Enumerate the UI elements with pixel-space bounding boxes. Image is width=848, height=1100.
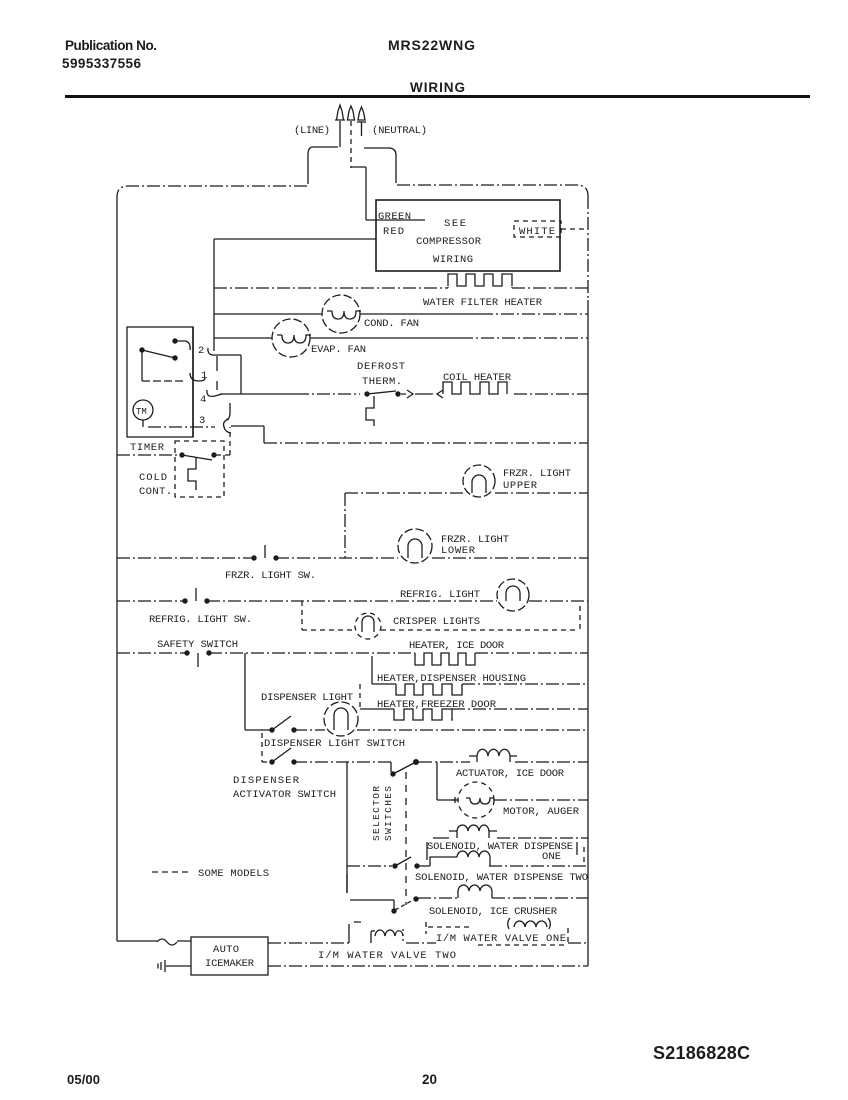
svg-text:SEE: SEE: [444, 218, 466, 230]
cold control dot right: [211, 452, 216, 457]
wire selector sw2 feed: [347, 865, 392, 867]
label SEE COMPRESSOR WIRING: [416, 218, 482, 266]
wire left bus to icemaker: [117, 940, 191, 942]
wire actuator row: [419, 761, 470, 763]
selector switch 1 dot right: [413, 759, 419, 765]
timer box: [127, 327, 193, 437]
label AUTO ICEMAKER: [205, 944, 255, 970]
svg-text:MRS22WNG: MRS22WNG: [388, 37, 475, 53]
label FRZR. LIGHT UPPER: [503, 468, 571, 492]
svg-text:S2186828C: S2186828C: [653, 1043, 750, 1063]
cold control box: [175, 441, 224, 497]
heater water filter element: [214, 287, 448, 289]
wire freezer door row right: [452, 708, 588, 710]
wire refrig light row: [207, 600, 588, 602]
svg-text:DISPENSER LIGHT SWITCH: DISPENSER LIGHT SWITCH: [264, 738, 405, 750]
frzr light switch dot right: [273, 555, 278, 560]
svg-text:DEFROST: DEFROST: [357, 361, 405, 373]
wire junction down to defrost row: [240, 355, 242, 394]
selector switch 2 dot right: [414, 863, 419, 868]
svg-text:MOTOR, AUGER: MOTOR, AUGER: [503, 806, 580, 818]
wire right bus: [587, 196, 589, 300]
timer blade dot left: [139, 347, 144, 352]
wire crisper drop: [301, 601, 303, 630]
heater dispenser housing element: [396, 684, 462, 695]
svg-text:DISPENSER: DISPENSER: [233, 775, 300, 787]
contact 2 jaw: [208, 348, 222, 355]
safety switch dot right: [206, 650, 211, 655]
defrost row: wire from contact4: [220, 393, 296, 395]
svg-text:AUTO: AUTO: [213, 944, 239, 956]
wire cond fan row: [214, 313, 480, 315]
svg-text:WATER FILTER HEATER: WATER FILTER HEATER: [423, 297, 543, 309]
selector mechanical link dashed: [405, 772, 407, 905]
wire safety switch row left: [117, 652, 187, 654]
header: publication number: [62, 38, 157, 71]
wire valve one to bus: [406, 942, 588, 944]
svg-text:3: 3: [199, 415, 205, 427]
wire contact2 to junction: [222, 354, 241, 356]
selector switch 2 dot left: [392, 863, 397, 868]
wire solenoid two row right: [489, 865, 588, 867]
wire frzr switch row left: [117, 557, 254, 559]
timer blade: [142, 350, 175, 358]
dispenser light switch blade: [272, 716, 291, 730]
timer contact top hook: [175, 341, 190, 350]
selector switch 1 dot: [390, 771, 395, 776]
svg-text:SAFETY SWITCH: SAFETY SWITCH: [157, 639, 238, 651]
auto icemaker box: [191, 937, 268, 975]
actuator ice door coil: [469, 749, 517, 762]
label FRZR. LIGHT LOWER: [441, 534, 509, 557]
dispenser activator switch dot right: [291, 759, 296, 764]
label DEFROST THERM.: [357, 361, 405, 388]
cold control dot left: [179, 452, 184, 457]
heater coil element: [443, 382, 507, 394]
wire crusher row: [418, 897, 458, 899]
frzr light switch dot left: [251, 555, 256, 560]
svg-text:ACTIVATOR SWITCH: ACTIVATOR SWITCH: [233, 789, 336, 801]
wire break connector chevrons: [401, 390, 443, 398]
defrost therm blade: [367, 391, 396, 394]
icemaker water valve one coil: [371, 930, 403, 943]
refrig light switch blade: [195, 588, 197, 601]
lamp crisper lights: [355, 613, 381, 639]
timer contact top dot: [172, 338, 177, 343]
node tick valve one left: [349, 922, 361, 943]
safety switch blade: [197, 653, 199, 667]
contact 1 jaw: [190, 373, 205, 381]
wire activator row: [294, 761, 391, 763]
solenoid one text box: [427, 842, 584, 862]
lamp refrig light: [497, 579, 529, 611]
wire refrig switch row: [117, 600, 185, 602]
wire dispenser light row: [294, 729, 588, 731]
svg-text:I/M WATER VALVE ONE: I/M WATER VALVE ONE: [436, 933, 566, 945]
svg-text:FRZR. LIGHT: FRZR. LIGHT: [503, 468, 571, 480]
label SELECTOR SWITCHES rotated: [371, 786, 394, 841]
contact 4 jaw: [207, 390, 222, 396]
motor auger: [452, 782, 494, 818]
icemaker valve one upper coil: [508, 918, 551, 929]
svg-text:FRZR. LIGHT SW.: FRZR. LIGHT SW.: [225, 570, 316, 582]
legend some models dash: [152, 871, 192, 873]
selector switch 3 dot left: [391, 908, 396, 913]
timer motor TM: [133, 400, 153, 420]
dispenser activator switch dot left: [269, 759, 274, 764]
dispenser light switch dot right: [291, 727, 296, 732]
safety switch dot left: [184, 650, 189, 655]
svg-text:HEATER,DISPENSER HOUSING: HEATER,DISPENSER HOUSING: [377, 673, 526, 685]
wire left bus: [116, 197, 118, 941]
selector switch 2 blade: [395, 857, 411, 866]
heater ice door element: [415, 653, 475, 665]
wire crisper row: [302, 629, 578, 631]
wire housing row right: [462, 683, 588, 685]
lamp dispenser light: [324, 702, 358, 736]
wire timer to contact 1: [142, 380, 184, 382]
plug prong LINE: [335, 105, 345, 147]
motor evap fan: [272, 319, 311, 357]
solenoid ice crusher coil: [458, 885, 492, 898]
svg-text:SWITCHES: SWITCHES: [383, 786, 394, 841]
cold control blade: [182, 455, 212, 460]
wire motor auger branch: [437, 762, 458, 800]
wire housing heater row: [372, 683, 396, 685]
svg-text:COLD: COLD: [139, 472, 167, 484]
wire frzr upper drop: [344, 493, 346, 558]
svg-text:CONT.: CONT.: [139, 486, 172, 498]
label COLD CONT.: [139, 472, 172, 498]
svg-text:GREEN: GREEN: [378, 211, 411, 223]
svg-text:REFRIG. LIGHT: REFRIG. LIGHT: [400, 589, 480, 601]
compressor box U1: [376, 200, 560, 271]
svg-text:2: 2: [198, 345, 204, 357]
wire housing heater drop: [371, 656, 373, 684]
svg-text:(LINE): (LINE): [294, 125, 330, 137]
refrig light switch dot left: [182, 598, 187, 603]
svg-text:LOWER: LOWER: [441, 545, 476, 557]
selector switch 3 blade dashed: [395, 900, 413, 910]
node WHITE dashed outline: [514, 221, 561, 237]
label SOLENOID, WATER DISPENSE ONE: [427, 841, 573, 863]
wire green underline: [366, 219, 425, 221]
svg-text:Publication No.: Publication No.: [65, 38, 157, 53]
svg-text:I/M WATER VALVE TWO: I/M WATER VALVE TWO: [318, 950, 456, 962]
header rule: [65, 95, 810, 98]
wire valve one row: [268, 942, 349, 944]
defrost therm dot right: [395, 391, 400, 396]
wire main bus vertical: [213, 239, 215, 351]
svg-text:UPPER: UPPER: [503, 480, 538, 492]
wire freezer door heater drop: [359, 684, 361, 709]
svg-text:SELECTOR: SELECTOR: [371, 786, 382, 841]
svg-text:WIRING: WIRING: [433, 254, 473, 266]
svg-text:COIL HEATER: COIL HEATER: [443, 372, 512, 384]
plug outline hat: [308, 147, 396, 184]
svg-text:HEATER, ICE DOOR: HEATER, ICE DOOR: [409, 640, 505, 652]
wire dispenser bus drop: [245, 653, 272, 730]
solenoid water dispense one coil: [433, 825, 497, 838]
wire bus between contacts: [216, 356, 218, 390]
wire coil heater to right bus: [514, 393, 588, 395]
svg-text:20: 20: [422, 1072, 437, 1087]
frzr light switch blade: [264, 545, 266, 558]
valve one text box: [426, 922, 568, 945]
plug prong ground: [357, 107, 366, 136]
svg-text:TM: TM: [136, 407, 147, 417]
wire selector feed corner: [390, 762, 392, 772]
plug prong NEUTRAL-middle: [350, 121, 352, 168]
icemaker feed connector wiggle: [157, 939, 177, 945]
wire freezer door row: [360, 708, 394, 710]
svg-text:DISPENSER LIGHT: DISPENSER LIGHT: [261, 692, 353, 704]
heater freezer door element: [394, 709, 452, 720]
timer blade dot right: [172, 355, 177, 360]
solenoid water dispense two coil: [419, 851, 490, 866]
wire TM to contact 3: [142, 420, 144, 427]
svg-text:ICEMAKER: ICEMAKER: [205, 958, 255, 970]
wire water filter heater to right: [512, 287, 588, 289]
wire crusher row right: [492, 897, 588, 899]
svg-text:SOLENOID, ICE CRUSHER: SOLENOID, ICE CRUSHER: [429, 906, 558, 918]
wire actuator to right bus: [515, 761, 588, 763]
wire row3 to right bus: [264, 442, 588, 444]
cold control thermostat step: [188, 458, 196, 490]
svg-text:REFRIG. LIGHT SW.: REFRIG. LIGHT SW.: [149, 614, 252, 626]
wire crusher feed: [347, 874, 394, 909]
lamp freezer light lower: [398, 529, 432, 563]
wire frzr lower row: [276, 557, 588, 559]
wire left bus to cold control: [117, 454, 182, 456]
refrig light switch dot right: [204, 598, 209, 603]
svg-text:(NEUTRAL): (NEUTRAL): [372, 125, 427, 137]
wire cold control to timer common: [216, 427, 230, 455]
selector switch 1 blade: [393, 763, 414, 774]
label DISPENSER ACTIVATOR SWITCH: [233, 775, 336, 801]
svg-text:05/00: 05/00: [67, 1072, 100, 1087]
wire timer left vertical: [141, 350, 143, 381]
wire activator drop: [262, 733, 272, 762]
wire crisper right riser: [579, 606, 581, 630]
svg-text:WHITE: WHITE: [519, 226, 555, 238]
wire white to right bus: [561, 228, 588, 230]
defrost therm sensor step: [366, 396, 374, 426]
contact 3 jaw: [224, 403, 231, 433]
svg-text:WIRING: WIRING: [410, 80, 465, 95]
wire frzr upper row: [345, 492, 588, 494]
svg-text:TIMER: TIMER: [130, 442, 165, 454]
wire selector common drop: [346, 762, 348, 893]
svg-text:5995337556: 5995337556: [62, 56, 141, 71]
svg-text:ACTUATOR, ICE DOOR: ACTUATOR, ICE DOOR: [456, 768, 565, 780]
ground: [158, 960, 191, 972]
wire top boundary right: [397, 185, 588, 196]
svg-text:ONE: ONE: [542, 851, 561, 863]
wire evap fan row: [214, 337, 460, 339]
svg-text:COND. FAN: COND. FAN: [364, 318, 419, 330]
wire neutral step to green: [351, 167, 366, 220]
motor cond fan: [322, 295, 361, 333]
svg-text:COMPRESSOR: COMPRESSOR: [416, 236, 482, 248]
wire ice door row right: [475, 652, 588, 654]
wire safety row to ice door heater: [209, 652, 415, 654]
svg-text:CRISPER LIGHTS: CRISPER LIGHTS: [393, 616, 480, 628]
defrost therm dot left: [364, 391, 369, 396]
wire motor to right bus: [494, 799, 588, 801]
wire contact3 to row: [231, 426, 264, 443]
svg-text:SOLENOID, WATER DISPENSE TWO: SOLENOID, WATER DISPENSE TWO: [415, 872, 588, 884]
wire top boundary left: [117, 186, 307, 197]
wire solenoid one row right: [497, 837, 588, 839]
svg-text:SOME MODELS: SOME MODELS: [198, 868, 269, 880]
wire red feed: [214, 238, 376, 240]
svg-text:4: 4: [200, 394, 206, 406]
selector switch 3 dot right: [413, 896, 418, 901]
svg-text:EVAP. FAN: EVAP. FAN: [311, 344, 366, 356]
wire valve two row: [268, 965, 588, 967]
dispenser light switch dot left: [269, 727, 274, 732]
lamp freezer light upper: [463, 465, 495, 497]
svg-text:THERM.: THERM.: [362, 376, 402, 388]
svg-text:RED: RED: [383, 226, 404, 238]
dispenser activator switch blade: [272, 748, 291, 762]
